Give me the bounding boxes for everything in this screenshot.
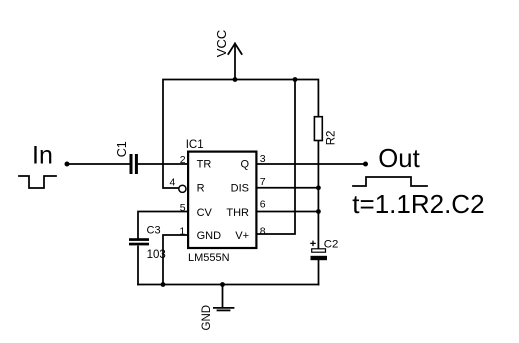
svg-text:3: 3 [260,153,266,165]
svg-text:In: In [32,142,53,170]
svg-text:1: 1 [179,225,185,237]
svg-text:8: 8 [260,225,266,237]
svg-text:103: 103 [147,249,166,261]
svg-text:6: 6 [260,199,266,211]
svg-text:THR: THR [226,207,249,219]
svg-text:R2: R2 [326,131,338,146]
svg-text:LM555N: LM555N [188,252,230,264]
svg-text:4: 4 [169,177,175,189]
svg-text:C2: C2 [324,238,339,250]
svg-text:2: 2 [180,154,186,166]
svg-text:DIS: DIS [231,182,249,194]
svg-text:5: 5 [180,202,186,214]
svg-text:Q: Q [240,159,249,171]
svg-text:V+: V+ [235,230,249,242]
svg-text:GND: GND [197,230,222,242]
svg-text:t=1.1R2.C2: t=1.1R2.C2 [352,189,484,219]
svg-text:R: R [197,182,205,194]
svg-text:VCC: VCC [214,30,229,57]
svg-text:C1: C1 [115,141,129,157]
svg-text:7: 7 [260,176,266,188]
svg-text:GND: GND [201,305,213,331]
svg-text:TR: TR [197,159,212,171]
svg-text:Out: Out [378,145,419,173]
svg-text:IC1: IC1 [186,139,204,151]
svg-text:C3: C3 [147,225,161,237]
svg-text:CV: CV [197,207,213,219]
